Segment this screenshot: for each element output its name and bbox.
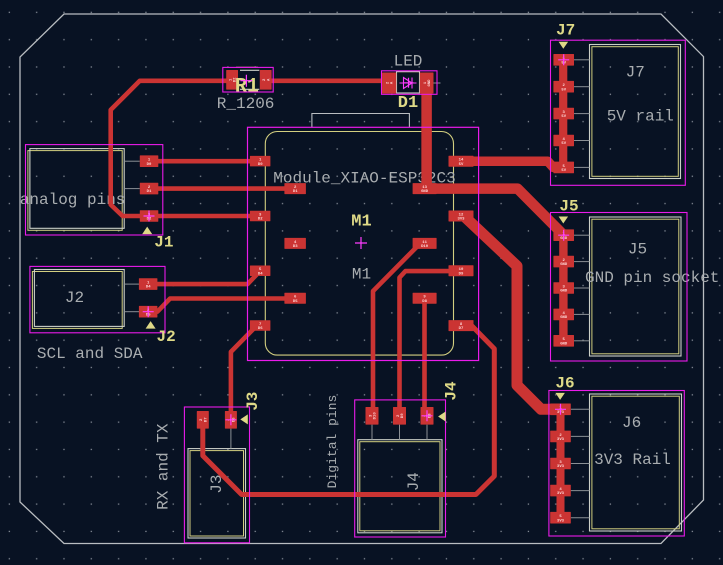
svg-text:D9: D9 — [459, 272, 464, 276]
module M1 pad 3 D2 — [250, 211, 271, 222]
svg-text:GND: GND — [421, 190, 429, 194]
svg-text:D0: D0 — [147, 163, 152, 167]
wire net SCL J2.2 to M1.6 — [148, 299, 294, 312]
svg-text:D4: D4 — [146, 286, 151, 290]
resistor R1 courtyard — [223, 67, 273, 92]
svg-text:J7: J7 — [626, 63, 645, 81]
svg-text:Digital pins: Digital pins — [325, 395, 340, 489]
connector J6 pin stub 3 — [571, 463, 590, 465]
svg-text:D9: D9 — [401, 413, 405, 418]
connector J7 pin stub 3 — [574, 113, 590, 115]
svg-text:D1: D1 — [147, 190, 152, 194]
connector J7 fab box — [592, 47, 678, 177]
svg-text:J5: J5 — [628, 240, 647, 258]
svg-text:LED: LED — [394, 52, 423, 70]
connector J5 courtyard — [551, 213, 688, 362]
connector J1 fab box — [28, 151, 122, 231]
resistor R1 pad 2 — [260, 70, 272, 90]
connector J4 pin stub 1 — [426, 425, 428, 440]
connector J5 silk box — [590, 217, 682, 356]
svg-text:D8: D8 — [422, 300, 427, 304]
svg-text:3V3: 3V3 — [557, 492, 565, 496]
connector J7 pad 3 5V — [553, 108, 574, 120]
connector J3 pin1 triangle — [240, 414, 248, 424]
svg-text:J1: J1 — [154, 233, 173, 251]
module M1 pad 9 D8 — [413, 293, 437, 304]
connector J2 pin stub 1 — [124, 283, 139, 285]
svg-text:GND: GND — [428, 79, 432, 87]
svg-text:3V3: 3V3 — [557, 519, 565, 523]
module M1 pad 1 D0 — [250, 156, 271, 167]
svg-text:J5: J5 — [559, 198, 578, 216]
svg-text:D7: D7 — [459, 327, 464, 331]
connector J6 pin1 triangle — [555, 393, 565, 400]
svg-text:D6: D6 — [258, 327, 263, 331]
connector J6 courtyard — [549, 391, 684, 537]
svg-text:J2: J2 — [65, 289, 84, 307]
svg-text:3V3: 3V3 — [557, 438, 565, 442]
connector J1 courtyard — [26, 145, 163, 235]
connector J7 pad 4 5V — [553, 135, 574, 147]
module M1 pad 12 3V3 — [449, 211, 474, 222]
connector J7 pin stub 1 — [574, 59, 590, 61]
svg-text:5V: 5V — [561, 169, 566, 173]
connector J3 courtyard — [184, 407, 249, 543]
module M1 pad 5 D4 — [250, 266, 271, 277]
connector J7 pin stub 2 — [574, 86, 590, 88]
svg-text:5V: 5V — [561, 115, 566, 119]
connector J7 anchor cross — [558, 54, 569, 65]
connector J6 pad 1 3V3 — [550, 404, 571, 416]
wire net D8 M1.9 to J4.3 — [422, 299, 427, 413]
connector J5 pin stub 4 — [574, 313, 590, 315]
connector J5 fab box — [592, 219, 679, 354]
svg-text:D10: D10 — [374, 412, 378, 420]
connector J6 pad 5 3V3 — [550, 512, 571, 524]
wire net D10 M1.11 to J4.1 — [373, 244, 420, 412]
wire net D0 J1.1 to M1.1 — [149, 159, 260, 164]
connector J6 pad 3 3V3 — [550, 458, 571, 470]
svg-text:GND pin socket: GND pin socket — [585, 269, 719, 287]
svg-text:5V: 5V — [459, 163, 464, 167]
module M1 pad 10 D9 — [449, 265, 474, 276]
wire net D9 M1.10 to J4.2 — [400, 271, 449, 412]
connector J5 pad 2 GND — [553, 256, 574, 268]
connector J1 pin1 triangle — [142, 227, 152, 235]
svg-text:GND: GND — [560, 316, 568, 320]
connector J5 pad 5 GND — [553, 335, 574, 347]
connector J4 pad 2 D9 — [393, 407, 406, 425]
connector J1 pin stub 3 — [124, 215, 140, 217]
resistor R1 silk lines — [240, 70, 259, 89]
svg-text:5V rail: 5V rail — [607, 108, 674, 126]
connector J7 pin stub 4 — [574, 140, 590, 142]
connector J4 silk box — [358, 440, 442, 533]
svg-text:5V: 5V — [561, 88, 566, 92]
module M1 anchor cross — [355, 237, 367, 249]
module M1 pad 6 D5 — [284, 293, 306, 304]
connector J6 anchor cross — [555, 404, 566, 415]
svg-text:M1: M1 — [351, 213, 371, 232]
connector J1 silk box — [30, 149, 124, 229]
connector J1 pin stub 2 — [124, 188, 140, 190]
wire net D7 J3.2 to M1.8 — [203, 326, 495, 495]
connector J2 pad 2 D5 — [139, 306, 158, 318]
wire net 3V3 M1.12 to J6.1 — [466, 218, 561, 409]
wire net 3V3 J6 pad bar — [557, 409, 565, 517]
connector J7 courtyard — [551, 40, 686, 185]
connector J2 pin stub 2 — [124, 311, 139, 313]
connector J4 pin1 triangle — [438, 412, 446, 422]
wire net D1 J1.2 to M1.2 — [149, 186, 294, 191]
connector J1 anchor cross — [144, 211, 155, 222]
svg-text:D1: D1 — [293, 190, 298, 194]
module M1 USB connector silk — [312, 114, 410, 128]
svg-text:3V3 Rail: 3V3 Rail — [594, 451, 671, 469]
svg-text:D0: D0 — [258, 163, 263, 167]
connector J3 anchor cross — [225, 414, 236, 425]
connector J5 anchor cross — [558, 230, 569, 241]
svg-text:J7: J7 — [556, 22, 575, 40]
module M1 pad 7 D6 — [250, 320, 271, 331]
svg-text:M1: M1 — [352, 266, 371, 284]
connector J4 pin stub 2 — [399, 425, 401, 440]
connector J6 fab box — [592, 396, 679, 529]
svg-text:D5: D5 — [293, 300, 298, 304]
module M1 pad 2 D1 — [284, 183, 306, 194]
wire net SDA J2.1 to M1.5 — [148, 271, 260, 284]
connector J4 anchor cross — [422, 410, 433, 421]
LED D1 silk box — [397, 72, 420, 94]
connector J6 pin stub 5 — [571, 517, 590, 519]
svg-text:RX and TX: RX and TX — [154, 423, 172, 510]
connector J3 silk box — [188, 449, 246, 538]
svg-text:J2: J2 — [156, 328, 175, 346]
connector J3 pad 1 D6 — [225, 411, 237, 429]
connector J7 pad 5 5V — [553, 162, 574, 174]
resistor R1 fab line — [236, 66, 258, 68]
wire net D6 J3.1 to M1.7 — [231, 326, 262, 414]
module M1 pad 11 D10 — [413, 238, 437, 249]
connector J2 fab box — [32, 272, 122, 329]
connector J2 silk box — [34, 270, 124, 327]
connector J4 courtyard — [355, 400, 446, 537]
LED D1 diode symbol — [400, 78, 417, 89]
connector J7 pin1 triangle — [559, 42, 569, 49]
connector J1 pad 3 D2 — [140, 210, 159, 222]
module M1 pad 4 D3 — [284, 238, 306, 249]
svg-text:J4: J4 — [443, 381, 461, 401]
connector J3 pad 2 D7 — [197, 411, 209, 429]
connector J6 silk box — [590, 394, 682, 531]
connector J5 pin stub 5 — [574, 340, 590, 342]
connector J2 pin1 triangle — [146, 321, 156, 329]
connector J5 pin stub 3 — [574, 287, 590, 289]
svg-text:GND: GND — [560, 290, 568, 294]
module M1 pad 14 5V — [449, 156, 474, 167]
svg-text:5V: 5V — [561, 142, 566, 146]
resistor R1 anchor cross — [240, 75, 252, 87]
connector J7 pad 2 5V — [553, 81, 574, 93]
wire net GND D1.2 to M1.13 to J5.1 — [427, 88, 564, 235]
svg-text:J3: J3 — [244, 392, 262, 411]
wire net GND J5 pad bar — [559, 235, 567, 341]
svg-text:GND: GND — [560, 342, 568, 346]
svg-text:D1: D1 — [398, 94, 418, 113]
wire net 5V M1.14 to J7.5 — [462, 161, 564, 167]
wire net anode R1.2 to D1.1 — [266, 79, 389, 84]
module M1 pad 8 D7 — [449, 320, 474, 331]
svg-text:GND: GND — [560, 263, 568, 267]
connector J5 pin stub 1 — [574, 234, 590, 236]
svg-text:J4: J4 — [405, 472, 423, 491]
svg-text:D2: D2 — [258, 218, 263, 222]
connector J4 pad 1 D8 — [421, 407, 434, 425]
connector J5 pin1 triangle — [559, 217, 569, 224]
resistor R1 pad 1 — [226, 70, 238, 90]
LED D1 pad 2 anode — [382, 73, 396, 94]
svg-text:SCL and SDA: SCL and SDA — [37, 345, 143, 363]
svg-text:D4: D4 — [258, 272, 263, 276]
svg-text:J6: J6 — [622, 414, 641, 432]
LED D1 fab line — [397, 71, 420, 73]
connector J1 pin stub 1 — [124, 160, 140, 162]
connector J6 pin stub 4 — [571, 490, 590, 492]
connector J2 pad 1 D4 — [139, 278, 158, 290]
connector J6 pad 2 3V3 — [550, 431, 571, 443]
connector J4 fab box — [360, 442, 440, 531]
connector J5 pad 1 GND — [553, 229, 574, 241]
module M1 fab outline — [265, 132, 453, 356]
connector J6 pin stub 2 — [571, 435, 590, 437]
LED D1 anchor cross — [404, 78, 414, 88]
connector J3 fab box — [190, 451, 244, 536]
svg-text:3V3: 3V3 — [557, 465, 565, 469]
svg-text:D7: D7 — [204, 417, 208, 422]
connector J7 silk box — [590, 45, 681, 179]
connector J7 pin stub 5 — [574, 166, 590, 168]
LED D1 pad 1 cathode — [420, 73, 434, 94]
connector J1 pad 2 D1 — [140, 183, 159, 195]
wire net 5V J7 pad bar — [559, 60, 567, 168]
svg-text:D10: D10 — [421, 245, 429, 249]
connector J5 pin stub 2 — [574, 261, 590, 263]
connector J4 pad 3 D10 — [366, 407, 379, 425]
connector J3 pin stub 2 — [202, 429, 204, 449]
connector J2 anchor cross — [143, 306, 154, 317]
connector J7 pad 1 5V — [553, 54, 574, 66]
connector J5 pad 3 GND — [553, 282, 574, 294]
module M1 Module_XIAO-ESP32C3 courtyard — [248, 127, 479, 360]
wire net D2 R1.1 to J1.3 to M1.3 — [111, 81, 260, 216]
connector J6 pad 4 3V3 — [550, 485, 571, 497]
connector J3 pin stub 1 — [230, 429, 232, 449]
module M1 pad 13 GND — [413, 183, 437, 194]
svg-text:J6: J6 — [555, 374, 574, 392]
connector J1 pad 1 D0 — [140, 155, 159, 167]
connector J4 pin stub 3 — [371, 425, 373, 440]
connector J2 courtyard — [30, 266, 165, 332]
LED D1 courtyard — [382, 71, 438, 95]
svg-text:D3: D3 — [293, 245, 298, 249]
connector J6 pin stub 1 — [571, 408, 590, 410]
svg-text:3V3: 3V3 — [457, 218, 465, 222]
connector J5 pad 4 GND — [553, 309, 574, 321]
LED D1 pin stub — [434, 82, 441, 84]
